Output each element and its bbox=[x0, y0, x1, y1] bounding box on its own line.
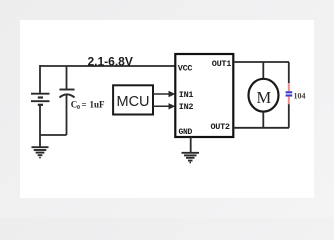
wire: GND lead bbox=[190, 137, 192, 153]
wire: battery negative lead down to ground bbox=[39, 105, 41, 147]
ground (right) bbox=[182, 153, 200, 163]
motor M1 bbox=[249, 79, 279, 112]
ground (left) bbox=[32, 147, 49, 157]
wire: OUT2 net bbox=[233, 127, 289, 129]
wire: C1 branch black bottom bbox=[288, 104, 290, 128]
wire: C1 branch black top bbox=[288, 62, 290, 83]
wire: capacitor C0 bottom lead bbox=[66, 95, 68, 136]
wire: battery positive lead bbox=[39, 65, 41, 94]
wire: MCU to IN1 arrow bbox=[153, 91, 175, 97]
wire: top power rail bbox=[40, 65, 176, 67]
svg-text:M: M bbox=[256, 88, 271, 107]
svg-text:104: 104 bbox=[294, 92, 306, 101]
svg-text:IN1: IN1 bbox=[179, 90, 194, 100]
capacitor C1 (104) bbox=[286, 92, 293, 95]
svg-text:IN2: IN2 bbox=[179, 102, 194, 112]
wire: capacitor C0 top lead bbox=[66, 66, 68, 90]
capacitor C0 (polarized) bbox=[60, 90, 75, 98]
IC U1 (motor driver) bbox=[175, 54, 233, 137]
wire: bottom rail battery to capacitor bbox=[40, 134, 67, 136]
svg-text:OUT2: OUT2 bbox=[211, 122, 230, 132]
svg-text:VCC: VCC bbox=[178, 64, 193, 74]
svg-text:GND: GND bbox=[179, 128, 193, 137]
wire: motor top lead bbox=[262, 62, 264, 78]
wire: OUT1 net bbox=[233, 61, 289, 63]
battery BT1 bbox=[31, 94, 50, 105]
wire: C1 red lead bottom bbox=[288, 96, 290, 104]
wire: C1 red lead top bbox=[288, 83, 290, 91]
svg-text:C0=1uF: C0=1uF bbox=[71, 99, 105, 111]
wire: MCU to IN2 arrow bbox=[153, 103, 175, 109]
svg-text:OUT1: OUT1 bbox=[212, 59, 231, 69]
svg-text:MCU: MCU bbox=[116, 94, 149, 110]
MCU box bbox=[113, 85, 153, 114]
svg-text:2.1-6.8V: 2.1-6.8V bbox=[88, 55, 133, 69]
wire: motor bottom lead bbox=[262, 113, 264, 128]
